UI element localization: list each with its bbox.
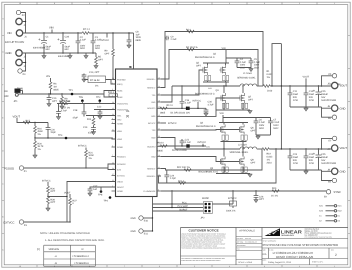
sense resistor R1 xyxy=(263,70,331,93)
svg-text:0.1uF: 0.1uF xyxy=(185,102,192,105)
ground C6 C7 xyxy=(256,135,271,139)
IC U1 left pin stubs xyxy=(112,80,116,192)
capacitor C14 xyxy=(304,86,315,107)
svg-text:PERFORMANCE OR RELIABILITY. C: PERFORMANCE OR RELIABILITY. CONTACT LINE… xyxy=(181,245,217,247)
svg-text:VIN: VIN xyxy=(7,32,12,35)
resistor R5 OPT xyxy=(94,53,104,69)
logo address block xyxy=(305,227,333,238)
svg-text:TRACK/SS1: TRACK/SS1 xyxy=(117,102,129,105)
svg-text:LTC3890EUH: LTC3890EUH xyxy=(75,262,90,265)
resistor R21 100K xyxy=(85,148,95,169)
svg-text:C16: C16 xyxy=(185,99,190,102)
resistor R24 0 xyxy=(178,180,186,184)
resistor R22 100 xyxy=(177,166,191,171)
zone labels left xyxy=(2,18,4,252)
pads Q3 xyxy=(223,103,229,108)
svg-text:SW1: SW1 xyxy=(319,205,323,208)
resistor R13 9.76K xyxy=(59,100,70,105)
svg-text:ON: ON xyxy=(4,90,8,93)
svg-text:C11: C11 xyxy=(293,90,298,93)
svg-text:50V: 50V xyxy=(293,96,298,99)
resistor R8 57.6K xyxy=(60,94,71,109)
svg-text:63HVH56M: 63HVH56M xyxy=(33,46,45,49)
svg-text:SGND: SGND xyxy=(117,190,123,193)
svg-text:31: 31 xyxy=(112,128,114,131)
capacitor C3 xyxy=(91,33,102,53)
jack J5 VOUT xyxy=(328,82,348,88)
capacitor C12 xyxy=(97,105,102,119)
svg-text:LINEAR: LINEAR xyxy=(281,229,303,234)
wire gnd bus left xyxy=(22,53,25,71)
svg-text:R11 0: R11 0 xyxy=(108,91,115,94)
svg-text:BSC067N06LS3 G: BSC067N06LS3 G xyxy=(196,125,216,128)
wire BG2 xyxy=(161,157,240,162)
svg-text:4: 4 xyxy=(229,265,230,268)
svg-text:8: 8 xyxy=(89,2,90,5)
approvals row labels xyxy=(237,238,257,251)
svg-text:C20: C20 xyxy=(50,128,55,131)
svg-text:8: 8 xyxy=(158,188,159,191)
svg-text:9: 9 xyxy=(54,2,55,5)
capacitor C21 0.1uF xyxy=(180,138,192,146)
svg-text:11: 11 xyxy=(158,166,160,169)
svg-text:OPT: OPT xyxy=(50,190,55,193)
label size xyxy=(263,249,335,251)
version table xyxy=(37,245,95,266)
testpoint TP2 xyxy=(96,96,101,103)
svg-text:2.2uF: 2.2uF xyxy=(240,61,247,64)
IC U1 left pin numbers xyxy=(112,77,114,187)
svg-text:VERSION: VERSION xyxy=(49,248,60,251)
wire SENSE2+ line xyxy=(159,149,277,183)
svg-text:L2 10uH: L2 10uH xyxy=(238,144,247,147)
resistor R6 xyxy=(49,82,59,94)
pads Q2 xyxy=(205,76,211,81)
label INTVCC boost1 xyxy=(193,99,202,109)
svg-text:OPT: OPT xyxy=(259,198,264,201)
svg-text:100K: 100K xyxy=(88,154,94,157)
svg-text:CIRCUIT THAT MEETS CUSTOMER-SU: CIRCUIT THAT MEETS CUSTOMER-SUPPLIED SPE… xyxy=(181,236,226,238)
svg-text:SIZE: SIZE xyxy=(263,249,266,251)
capacitor C4 xyxy=(226,58,251,69)
junction dots VFB xyxy=(34,137,67,139)
label INTVCC boost2 xyxy=(198,141,207,147)
pads Q4 xyxy=(222,135,228,140)
svg-text:DRVCC: DRVCC xyxy=(117,186,125,189)
svg-text:14: 14 xyxy=(158,85,160,88)
svg-text:50V: 50V xyxy=(309,159,314,162)
junction dots SW2 xyxy=(223,148,243,149)
svg-text:[2]: [2] xyxy=(37,248,40,251)
label VIN R6 xyxy=(46,75,51,82)
svg-text:0805: 0805 xyxy=(136,39,142,42)
svg-text:C23: C23 xyxy=(293,153,298,156)
svg-text:N/A: N/A xyxy=(263,253,267,256)
wire VFB line xyxy=(35,138,116,139)
turret E7 xyxy=(322,136,337,149)
svg-text:INTVCC: INTVCC xyxy=(101,39,110,42)
transistor Q3 xyxy=(195,86,226,110)
turret E2 xyxy=(16,10,25,17)
junction dots sync xyxy=(171,190,256,191)
svg-text:L1 10uH: L1 10uH xyxy=(243,72,252,75)
svg-text:[2]: [2] xyxy=(126,115,129,118)
svg-text:THIS CIRCUIT IS PROPRIETARY TO: THIS CIRCUIT IS PROPRIETARY TO LINEAR TE… xyxy=(181,258,224,260)
title block outline xyxy=(181,228,348,265)
wire mode vertical xyxy=(171,191,173,208)
svg-text:1M: 1M xyxy=(53,85,56,88)
svg-text:2.2uF: 2.2uF xyxy=(259,121,266,124)
svg-text:5: 5 xyxy=(112,121,113,124)
svg-text:C29: C29 xyxy=(170,174,175,177)
svg-text:TECHNOLOGY APPLICATIONS ENGINE: TECHNOLOGY APPLICATIONS ENGINEERING FOR … xyxy=(181,247,226,249)
svg-text:2: 2 xyxy=(112,88,113,91)
svg-text:1812: 1812 xyxy=(254,66,260,69)
svg-text:PGND: PGND xyxy=(117,146,123,149)
svg-text:VOUT: VOUT xyxy=(340,147,348,150)
svg-text:2.2uF: 2.2uF xyxy=(80,39,87,42)
svg-text:1%: 1% xyxy=(88,157,91,160)
svg-text:PGOOD2: PGOOD2 xyxy=(117,163,126,166)
svg-text:100V: 100V xyxy=(240,64,246,67)
capacitor C15 xyxy=(313,86,336,107)
junction dot R9 xyxy=(112,32,113,33)
svg-text:GND: GND xyxy=(131,217,136,220)
svg-text:R18 0: R18 0 xyxy=(158,142,165,145)
svg-text:16SVPC150M: 16SVPC150M xyxy=(321,99,336,102)
net stub G2 xyxy=(319,220,340,223)
svg-text:NOTE: UNLESS OTHERWISE SPECIFI: NOTE: UNLESS OTHERWISE SPECIFIED xyxy=(40,232,90,235)
svg-text:1210: 1210 xyxy=(309,99,315,102)
label VOUT arrow xyxy=(303,76,310,86)
resistor R11 0 xyxy=(108,91,118,97)
svg-text:0805: 0805 xyxy=(158,149,164,152)
svg-text:VFB2: VFB2 xyxy=(117,138,123,141)
svg-text:PLS SKIP: PLS SKIP xyxy=(178,205,189,208)
svg-text:OPT: OPT xyxy=(50,201,55,204)
diode D1 DFLS1100 xyxy=(171,107,191,115)
svg-text:10uF: 10uF xyxy=(309,156,315,159)
svg-text:17: 17 xyxy=(158,92,160,95)
part row divider xyxy=(262,247,348,249)
wire gnd bus vout1 xyxy=(290,107,322,111)
date row column xyxy=(309,259,311,265)
svg-text:BURST: BURST xyxy=(180,208,188,211)
wire SW1 riser xyxy=(161,86,172,102)
label Q2 OPT xyxy=(196,61,201,67)
svg-text:R12 0: R12 0 xyxy=(167,104,174,107)
svg-text:LTC3890EUH-2: LTC3890EUH-2 xyxy=(73,255,90,258)
svg-text:VBIAS: VBIAS xyxy=(117,180,124,183)
svg-text:DATE:: DATE: xyxy=(263,260,268,262)
svg-text:1812: 1812 xyxy=(273,127,279,130)
svg-text:3: 3 xyxy=(264,265,265,268)
capacitor C26 OPT xyxy=(254,191,265,203)
resistor R18 0 xyxy=(158,142,168,153)
inductor L1 xyxy=(237,72,263,86)
svg-text:100K 1%: 100K 1% xyxy=(226,209,235,212)
svg-text:C25: C25 xyxy=(321,153,326,156)
wire input bus top xyxy=(21,13,26,34)
svg-text:1210: 1210 xyxy=(309,162,315,165)
svg-text:TRACK/SS2: TRACK/SS2 xyxy=(117,108,129,111)
capacitor C17 4.7nF xyxy=(56,104,70,120)
svg-text:63V: 63V xyxy=(65,48,70,51)
label INTVCC rail xyxy=(101,33,110,42)
resistor R28 OPT xyxy=(46,197,56,212)
capacitor C25 xyxy=(313,149,336,170)
svg-text:GND: GND xyxy=(131,230,136,233)
label VIN phase1 xyxy=(222,47,227,63)
svg-text:VOUT: VOUT xyxy=(13,115,21,118)
svg-text:SENSE2-: SENSE2- xyxy=(147,167,156,170)
svg-text:2.2uF: 2.2uF xyxy=(273,121,280,124)
border ticks left xyxy=(2,36,4,234)
svg-text:16V UP TO 60V: 16V UP TO 60V xyxy=(5,41,24,44)
svg-text:C12: C12 xyxy=(97,105,102,108)
svg-text:R28: R28 xyxy=(50,198,55,201)
customer notice body text xyxy=(181,234,226,250)
svg-text:1uF: 1uF xyxy=(136,33,141,36)
svg-text:2: 2 xyxy=(335,253,337,257)
svg-text:2: 2 xyxy=(299,265,300,268)
svg-text:499K: 499K xyxy=(37,130,43,133)
junction dot extvcc2 xyxy=(66,196,67,197)
svg-text:23: 23 xyxy=(158,127,160,130)
svg-text:R29: R29 xyxy=(272,187,277,190)
svg-text:INTVCC: INTVCC xyxy=(78,145,87,148)
svg-text:50V: 50V xyxy=(309,96,314,99)
wire drain bus phase1 top xyxy=(203,63,229,65)
svg-text:100V: 100V xyxy=(80,45,86,48)
svg-text:6: 6 xyxy=(159,2,160,5)
svg-text:OPT: OPT xyxy=(105,52,110,55)
svg-text:APPLICATION. COMPONENT SUBSTI: APPLICATION. COMPONENT SUBSTITUTION AND … xyxy=(181,241,222,243)
testpoint TP8 xyxy=(98,187,103,196)
svg-text:C21: C21 xyxy=(185,138,190,141)
wire jp2 right stub xyxy=(212,201,233,204)
border ticks top xyxy=(37,2,317,4)
title divider xyxy=(262,238,348,240)
capacitor C23 xyxy=(288,149,299,170)
svg-text:EXTVCC: EXTVCC xyxy=(117,174,126,177)
svg-text:JP2: JP2 xyxy=(201,216,206,219)
svg-text:SGND: SGND xyxy=(117,122,123,125)
svg-text:APP ENG.: APP ENG. xyxy=(237,242,244,244)
svg-text:MODE: MODE xyxy=(202,197,209,200)
svg-text:4: 4 xyxy=(229,2,230,5)
capacitor C2 xyxy=(76,33,87,53)
svg-text:C17 1%: C17 1% xyxy=(62,107,70,110)
junction dots vout1 xyxy=(271,85,322,86)
svg-text:HOWEVER, IT REMAINS THE CUSTOM: HOWEVER, IT REMAINS THE CUSTOMER'S RESPO… xyxy=(181,238,226,240)
wire BOOST1 line xyxy=(161,107,206,109)
svg-text:R19: R19 xyxy=(267,153,272,156)
wire mode rows xyxy=(153,204,204,211)
svg-text:1812: 1812 xyxy=(95,47,101,50)
svg-text:VFB1: VFB1 xyxy=(117,130,123,133)
svg-text:RUN1: RUN1 xyxy=(117,89,123,92)
svg-text:TP1: TP1 xyxy=(69,89,74,92)
svg-text:R26: R26 xyxy=(50,187,55,190)
svg-text:4.7uF: 4.7uF xyxy=(208,103,215,106)
svg-text:INTVCC: INTVCC xyxy=(193,99,202,102)
wire BOOST2 line xyxy=(161,145,206,147)
wire RUN line xyxy=(18,91,115,98)
svg-text:INTVCC: INTVCC xyxy=(148,122,156,125)
ground input caps b xyxy=(68,53,73,59)
transistor Q5 xyxy=(199,149,226,174)
svg-text:1%: 1% xyxy=(267,76,270,79)
jack J8 GND xyxy=(322,168,346,174)
svg-text:BSC028N06LS3 G: BSC028N06LS3 G xyxy=(195,92,215,95)
junction dot extvcc xyxy=(47,196,48,197)
svg-text:BSC067N06LS3 G: BSC067N06LS3 G xyxy=(195,56,215,59)
svg-text:SENSE1+: SENSE1+ xyxy=(146,78,156,81)
turret E9 SYNC xyxy=(324,190,341,199)
wire SW1 node xyxy=(172,85,240,87)
transistor Q2 xyxy=(201,65,207,75)
jack J2 xyxy=(16,18,27,27)
svg-text:G1: G1 xyxy=(338,215,341,218)
date row divider xyxy=(262,258,348,260)
resistor R20 35.7K xyxy=(33,138,44,158)
svg-text:10: 10 xyxy=(19,265,21,268)
svg-text:GND: GND xyxy=(6,52,12,55)
svg-text:VIN: VIN xyxy=(49,27,54,30)
svg-text:3: 3 xyxy=(112,94,113,97)
svg-text:0805: 0805 xyxy=(160,111,166,114)
resistor R4 100 xyxy=(186,46,198,51)
svg-text:SHEET 1 OF 1: SHEET 1 OF 1 xyxy=(312,260,323,263)
inductor L2 xyxy=(230,144,263,154)
junction dot C8 xyxy=(128,32,129,33)
svg-text:E10: E10 xyxy=(144,220,149,223)
turret E1 xyxy=(19,166,27,173)
svg-text:1%: 1% xyxy=(37,133,40,136)
svg-text:JUDY SU: JUDY SU xyxy=(245,238,251,240)
svg-text:SW2: SW2 xyxy=(319,210,323,213)
svg-text:63V: 63V xyxy=(46,48,51,51)
wire EXTVCC line xyxy=(24,221,70,223)
pads Q5 xyxy=(222,167,228,172)
svg-text:100V: 100V xyxy=(136,36,142,39)
svg-text:15pF: 15pF xyxy=(50,131,56,134)
resistor R2 0 xyxy=(186,28,194,32)
testpoint TP3 xyxy=(58,134,67,140)
svg-text:TP2: TP2 xyxy=(96,96,101,99)
svg-text:2010: 2010 xyxy=(267,90,273,93)
capacitor C28 xyxy=(57,33,70,53)
svg-text:CUSTOMER NOTICE: CUSTOMER NOTICE xyxy=(189,228,219,232)
svg-text:CIRCUIT BOARD LAYOUT MAY SIGNI: CIRCUIT BOARD LAYOUT MAY SIGNIFICANTLY A… xyxy=(181,243,225,245)
label INTVCC pin arrow xyxy=(161,122,177,125)
svg-text:SW1: SW1 xyxy=(338,205,342,208)
svg-text:R14: R14 xyxy=(87,118,92,121)
svg-text:C26: C26 xyxy=(259,195,264,198)
svg-text:SW2: SW2 xyxy=(338,210,342,213)
svg-text:TECHNOLOGY: TECHNOLOGY xyxy=(281,234,295,237)
ground input caps 2 xyxy=(84,53,89,59)
linear logo mark xyxy=(265,228,280,236)
svg-text:PCB DES.: PCB DES. xyxy=(237,238,244,240)
capacitor C18 47pF xyxy=(73,104,87,120)
svg-text:1: 1 xyxy=(334,2,335,5)
svg-text:2: 2 xyxy=(299,2,300,5)
svg-text:E11: E11 xyxy=(144,233,149,236)
capacitor C5 xyxy=(249,58,261,69)
svg-text:3: 3 xyxy=(264,2,265,5)
jack J1 VIN xyxy=(16,30,27,39)
svg-text:FCC: FCC xyxy=(182,201,187,204)
svg-text:GND: GND xyxy=(340,107,346,110)
svg-text:0.003: 0.003 xyxy=(267,156,274,159)
svg-text:C19: C19 xyxy=(83,126,88,129)
wire source bus phase2 top xyxy=(221,140,247,149)
net stub G1 xyxy=(319,215,340,218)
jack J4 xyxy=(16,59,27,68)
svg-text:G2: G2 xyxy=(319,220,322,223)
resistor R27 0 xyxy=(69,194,78,222)
svg-text:R16: R16 xyxy=(37,127,42,130)
svg-text:1. ALL RESISTORS AND CAPACITO: 1. ALL RESISTORS AND CAPACITORS ARE 0603… xyxy=(45,239,105,242)
zone labels top xyxy=(19,2,335,5)
svg-text:6: 6 xyxy=(159,265,160,268)
svg-text:1K 1%: 1K 1% xyxy=(271,194,278,197)
capacitor C7 xyxy=(256,118,280,136)
wire SW2 node xyxy=(175,148,240,150)
pads Q7 xyxy=(242,103,248,108)
IC U1 top pin stub xyxy=(130,65,134,69)
svg-text:TP4: TP4 xyxy=(104,200,109,203)
wire TRACK/SS2 line xyxy=(94,109,116,111)
svg-text:7: 7 xyxy=(124,2,125,5)
svg-text:150uF: 150uF xyxy=(321,156,328,159)
sense resistor R19 xyxy=(262,148,331,165)
jumper JP2 xyxy=(201,202,213,220)
svg-text:OFF: OFF xyxy=(4,95,9,98)
turret E3 xyxy=(19,220,27,227)
svg-text:5: 5 xyxy=(194,265,195,268)
svg-text:5: 5 xyxy=(194,2,195,5)
vertical gnd stub E10 E11 xyxy=(152,197,154,232)
testpoint TP1 xyxy=(69,89,74,95)
svg-text:C30: C30 xyxy=(208,101,213,104)
transistor Q4 xyxy=(219,125,225,135)
svg-text:SENSE2+: SENSE2+ xyxy=(146,175,156,178)
capacitor C20 15pF xyxy=(46,123,57,139)
svg-text:Friday, August 01, 2014: Friday, August 01, 2014 xyxy=(268,261,292,264)
IC U1 left pin names xyxy=(117,78,129,193)
wire source bus phase1 top xyxy=(203,81,229,86)
zone labels bottom xyxy=(19,265,335,268)
svg-text:C15: C15 xyxy=(321,90,326,93)
svg-text:56uF: 56uF xyxy=(46,45,52,48)
svg-text:SW2: SW2 xyxy=(206,146,210,149)
transistor Q6 xyxy=(238,125,244,135)
transistor Q1 xyxy=(219,65,225,75)
svg-text:VIN: VIN xyxy=(220,112,224,115)
capacitor C16 0.1uF xyxy=(180,85,192,109)
jack J6 GND xyxy=(322,105,346,111)
svg-text:APPROVALS: APPROVALS xyxy=(239,229,255,232)
svg-text:1: 1 xyxy=(112,81,113,84)
svg-text:VIN: VIN xyxy=(46,75,50,78)
svg-text:100V: 100V xyxy=(259,124,265,127)
svg-text:16SVPC150M: 16SVPC150M xyxy=(321,162,336,165)
wire TG1 xyxy=(161,70,203,95)
resistor R16 499K xyxy=(34,123,44,139)
